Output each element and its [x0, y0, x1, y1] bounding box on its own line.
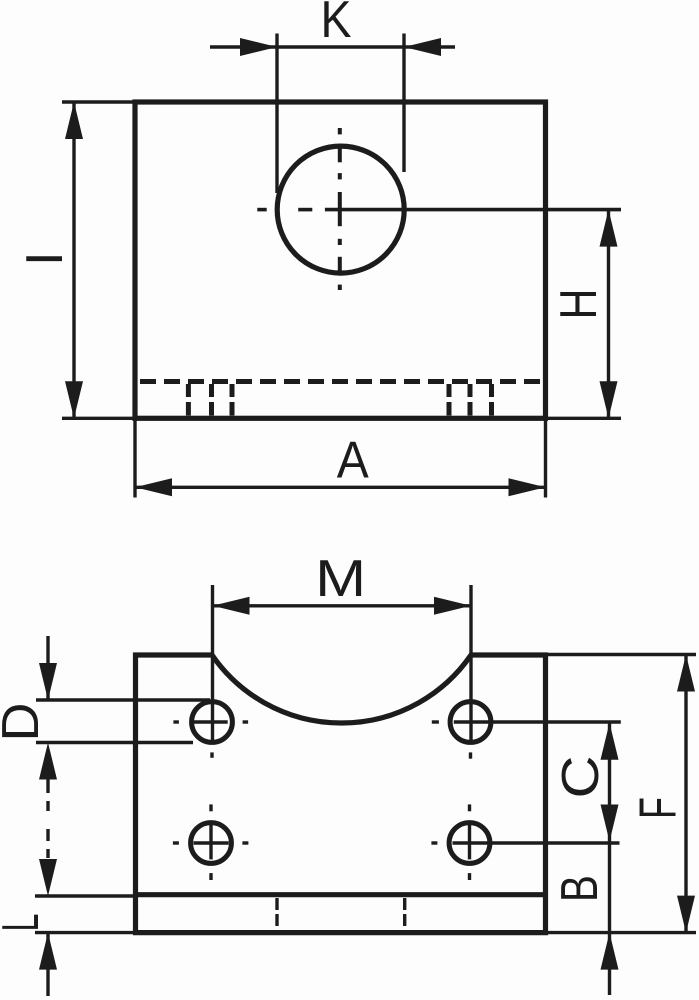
hidden edge dashed line (slot depth)	[140, 379, 541, 384]
hole top-right centerline marks	[432, 722, 621, 759]
F extension line bottom	[548, 931, 696, 934]
I arrow top	[65, 102, 83, 139]
D extension line bottom	[36, 741, 193, 744]
L arrow bottom	[39, 933, 57, 970]
D extension line top	[36, 698, 210, 701]
A extension line left	[133, 420, 136, 498]
svg-text:L: L	[0, 914, 50, 932]
vertical centerline of bore	[338, 128, 342, 290]
F extension line top	[548, 653, 696, 656]
hole bottom-right centerline marks	[431, 804, 619, 880]
svg-text:F: F	[630, 797, 688, 819]
svg-text:M: M	[315, 550, 366, 608]
A arrow left	[135, 478, 172, 496]
I arrow bottom	[65, 381, 83, 418]
K arrow right	[404, 38, 441, 56]
svg-text:H: H	[550, 289, 608, 320]
F dimension line	[684, 655, 687, 933]
hole bottom-right	[449, 823, 490, 864]
A extension line right	[544, 420, 547, 498]
I extension line top	[62, 100, 135, 103]
hidden slot marks right group	[449, 384, 492, 416]
D dimension line upper	[46, 636, 49, 700]
svg-text:A: A	[337, 432, 369, 490]
C arrow bottom (shared with B top)	[601, 805, 619, 842]
H dimension line	[607, 210, 610, 419]
M arrow left	[213, 597, 250, 615]
L dimension line tail	[46, 933, 49, 996]
C arrow top	[601, 723, 619, 760]
top view body outline	[135, 102, 546, 418]
bottom view body outline with top notch	[136, 655, 546, 933]
D arrow bottom	[39, 743, 57, 780]
C dimension line	[608, 723, 611, 842]
K dimension line	[210, 45, 455, 48]
L arrow top	[39, 859, 57, 896]
svg-text:B: B	[551, 875, 609, 902]
svg-text:C: C	[552, 756, 610, 799]
B dimension line tail	[608, 933, 611, 995]
svg-text:K: K	[321, 0, 352, 49]
A arrow right	[509, 478, 546, 496]
svg-text:I: I	[16, 251, 74, 265]
hole top-left centerline marks	[173, 722, 248, 758]
hole bottom-left	[191, 823, 232, 864]
M arrow right	[434, 597, 471, 615]
base strip dashed mark right	[403, 898, 406, 926]
svg-text:D: D	[0, 703, 50, 742]
horizontal centerline of bore / H extension line	[257, 208, 621, 212]
H arrow bottom	[600, 381, 618, 418]
F arrow top	[677, 655, 695, 692]
hole top-left	[192, 702, 233, 743]
K extension line left	[275, 34, 278, 194]
I dimension line	[72, 102, 75, 418]
B arrow bottom	[601, 933, 619, 970]
B dimension line	[608, 842, 611, 933]
H arrow top	[600, 210, 618, 247]
M dimension line	[213, 604, 472, 607]
K arrow left	[240, 38, 277, 56]
F arrow bottom	[677, 896, 695, 933]
base strip dashed mark left	[275, 898, 278, 926]
D-L connecting broken line	[46, 780, 49, 859]
M extension line right (through top-right hole)	[469, 585, 472, 740]
hole (large bore circle)	[277, 146, 404, 273]
L extension line top	[35, 894, 136, 897]
I extension line bottom	[62, 417, 135, 420]
hole top-right	[450, 702, 491, 743]
hidden slot marks left group	[188, 384, 232, 416]
K extension line right	[402, 34, 405, 173]
hole bottom-left centerline marks	[173, 804, 249, 880]
M extension line left (through top-left hole)	[211, 585, 214, 744]
L extension line bottom	[35, 931, 136, 934]
H extension line bottom	[548, 417, 621, 420]
base strip line	[136, 892, 546, 897]
D arrow top	[39, 663, 57, 700]
A dimension line	[135, 486, 546, 489]
